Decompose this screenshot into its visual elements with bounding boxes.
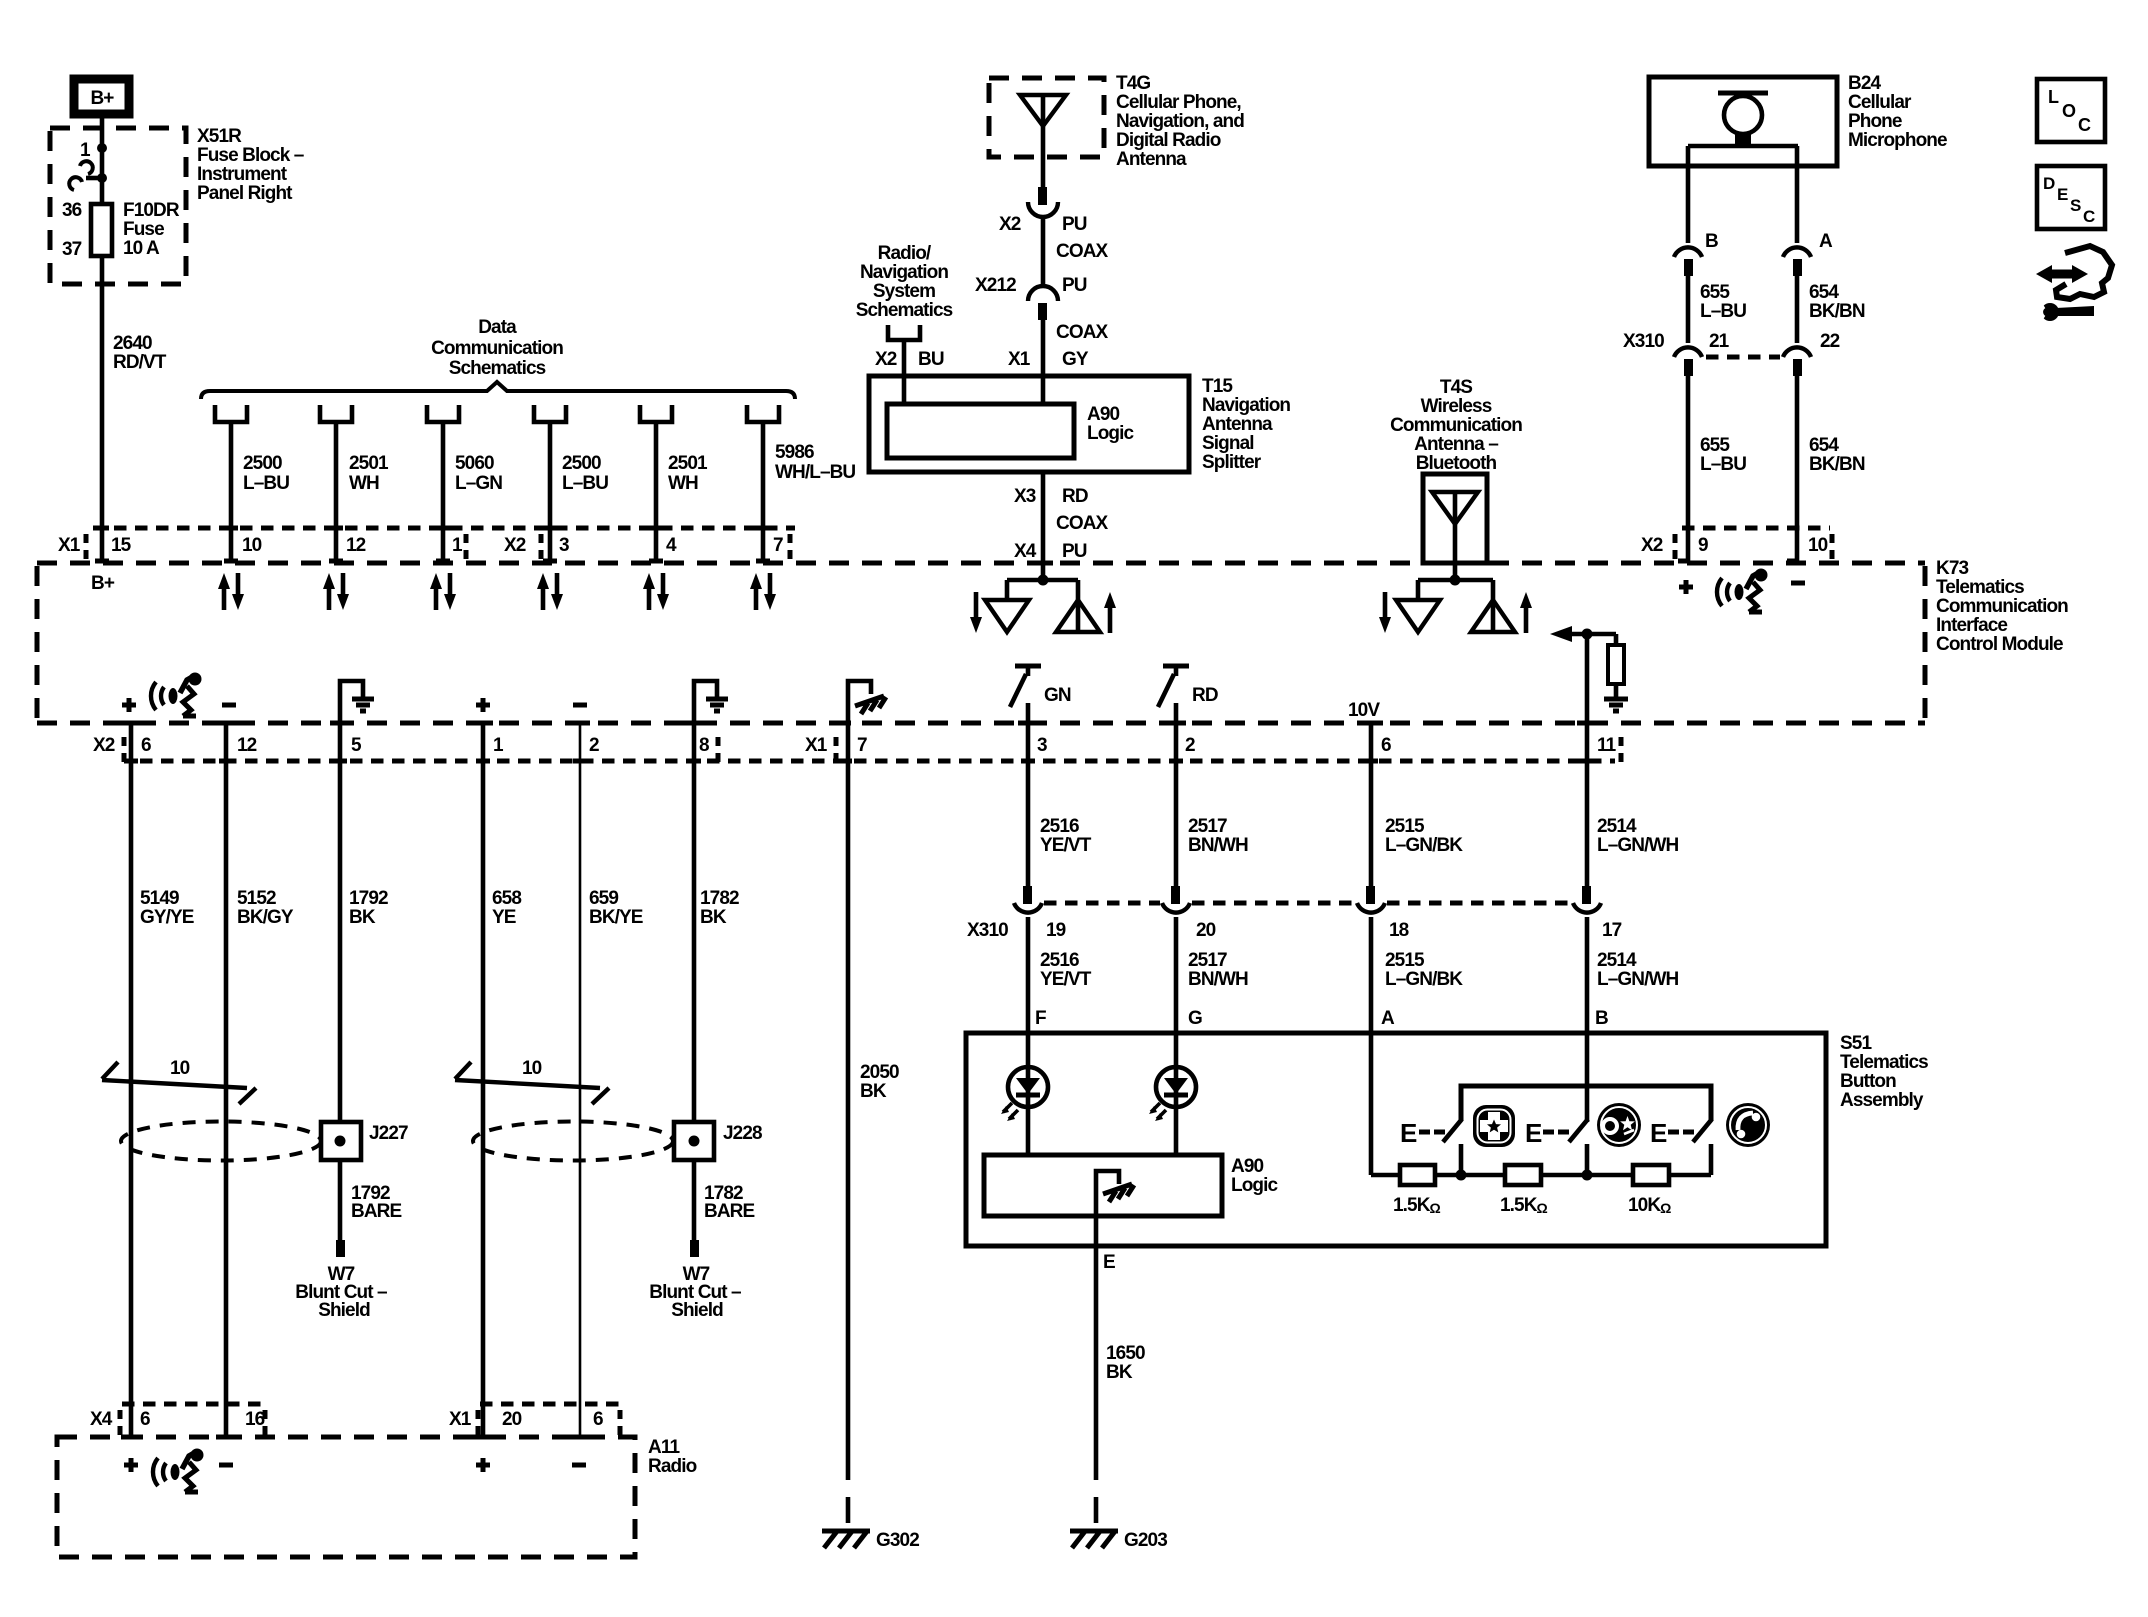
svg-text:GN: GN: [1044, 685, 1071, 706]
svg-text:Instrument: Instrument: [197, 164, 288, 185]
svg-text:Navigation: Navigation: [1202, 395, 1290, 416]
speaker icon (K73 left): [151, 673, 202, 717]
svg-text:22: 22: [1820, 331, 1840, 352]
microphone symbol: [1688, 93, 1798, 146]
data arrows pair 4: [537, 573, 563, 610]
radio A11 dashed box: [57, 1437, 635, 1557]
button common bus box: [1461, 1086, 1711, 1121]
wire 2517 BN/WH lower: [1174, 917, 1179, 1067]
svg-text:X1: X1: [805, 735, 828, 756]
svg-text:D: D: [2043, 174, 2055, 193]
svg-text:K73: K73: [1936, 558, 1968, 579]
svg-text:11: 11: [1597, 735, 1617, 756]
svg-text:12: 12: [346, 535, 366, 556]
svg-text:B+: B+: [91, 573, 115, 594]
connector pin A: [1783, 247, 1811, 257]
connector X310 pin 17: [1582, 886, 1591, 904]
svg-text:Button: Button: [1840, 1071, 1896, 1092]
svg-text:5986: 5986: [775, 442, 814, 463]
svg-text:RD: RD: [1192, 685, 1218, 706]
svg-text:Communication: Communication: [1936, 596, 2068, 617]
connector X310 pin 19: [1023, 886, 1032, 904]
down arrow: [1383, 592, 1388, 620]
wire 5149 GY/YE: [129, 723, 134, 1437]
OnStar button icon: [1597, 1103, 1641, 1147]
data link connector 1 (2500 L-BU): [215, 405, 289, 563]
transmit antenna symbol (down): [1396, 600, 1440, 632]
service/direction icon: [2036, 246, 2112, 321]
svg-text:Assembly: Assembly: [1840, 1090, 1924, 1111]
svg-text:12: 12: [237, 735, 257, 756]
wire 2517 to pin 2: [1174, 703, 1179, 886]
svg-text:Bluetooth: Bluetooth: [1416, 453, 1497, 474]
svg-text:BK: BK: [700, 907, 727, 928]
blunt cut W7 (left): [336, 1240, 345, 1257]
wire 2514 L-GN/WH lower: [1585, 917, 1590, 1122]
svg-text:X51R: X51R: [197, 126, 242, 147]
svg-text:7: 7: [857, 735, 867, 756]
data arrows pair 1: [218, 573, 244, 610]
svg-text:16: 16: [245, 1409, 265, 1430]
svg-text:BARE: BARE: [704, 1201, 754, 1222]
svg-text:WH/L–BU: WH/L–BU: [775, 462, 855, 483]
svg-text:T4S: T4S: [1440, 377, 1472, 398]
LED indicator 2: [1149, 1067, 1196, 1121]
DESC legend box: [2037, 166, 2105, 229]
svg-text:654: 654: [1809, 435, 1839, 456]
fuse block X51R dashed box: [50, 128, 186, 284]
svg-text:1782: 1782: [700, 888, 739, 909]
svg-text:36: 36: [62, 200, 82, 221]
svg-text:2516: 2516: [1040, 816, 1079, 837]
svg-text:Radio/: Radio/: [878, 243, 932, 264]
receive antenna symbol (up): [1056, 600, 1100, 632]
svg-text:Navigation, and: Navigation, and: [1116, 111, 1244, 132]
svg-text:L–GN/BK: L–GN/BK: [1385, 969, 1463, 990]
svg-text:L–GN: L–GN: [455, 473, 502, 494]
svg-text:X2: X2: [875, 349, 897, 370]
LED indicator 1: [1001, 1067, 1048, 1121]
svg-text:Wireless: Wireless: [1421, 396, 1492, 417]
svg-text:WH: WH: [668, 473, 698, 494]
T4S antenna symbol: [1453, 492, 1458, 580]
svg-text:T4G: T4G: [1116, 73, 1150, 94]
svg-text:BARE: BARE: [351, 1201, 401, 1222]
svg-text:15: 15: [111, 535, 132, 556]
svg-text:10: 10: [170, 1058, 190, 1079]
svg-text:X2: X2: [999, 214, 1021, 235]
svg-text:19: 19: [1046, 920, 1066, 941]
svg-text:YE/VT: YE/VT: [1040, 835, 1092, 856]
X310 dotted links: [1044, 901, 1160, 906]
svg-text:2517: 2517: [1188, 816, 1227, 837]
svg-text:X1: X1: [58, 535, 81, 556]
svg-text:6: 6: [141, 735, 151, 756]
K73 speaker output polarity: [122, 698, 236, 712]
svg-text:C: C: [2083, 207, 2095, 226]
wire 5152 BK/GY: [224, 723, 229, 1437]
svg-text:1650: 1650: [1106, 1343, 1145, 1364]
svg-text:GY/YE: GY/YE: [140, 907, 194, 928]
svg-text:A: A: [1381, 1008, 1395, 1029]
svg-text:BK/BN: BK/BN: [1809, 454, 1865, 475]
K73 lower connector dotted row: [140, 759, 1615, 764]
wire 2050 BK: [846, 723, 851, 1454]
data arrows pair 6: [750, 573, 776, 610]
data link connector 2 (2501 WH): [320, 405, 389, 563]
svg-text:Digital Radio: Digital Radio: [1116, 130, 1221, 151]
wire X3 RD coax: [1041, 472, 1046, 580]
svg-text:2: 2: [1185, 735, 1195, 756]
antenna T4S box: [1423, 474, 1487, 563]
svg-text:E: E: [1650, 1118, 1667, 1148]
internal pull resistor: [1614, 634, 1619, 645]
ground symbol at pin 5: [340, 681, 363, 723]
svg-text:A90: A90: [1231, 1156, 1263, 1177]
svg-text:655: 655: [1700, 282, 1730, 303]
svg-text:Communication: Communication: [1390, 415, 1522, 436]
svg-text:10 A: 10 A: [123, 238, 160, 259]
svg-text:21: 21: [1709, 331, 1730, 352]
svg-text:4: 4: [666, 535, 677, 556]
splice J227: [321, 1122, 361, 1160]
svg-text:X1: X1: [449, 1409, 472, 1430]
svg-text:System: System: [873, 281, 935, 302]
svg-text:20: 20: [502, 1409, 522, 1430]
svg-text:G: G: [1188, 1008, 1202, 1029]
svg-text:2517: 2517: [1188, 950, 1227, 971]
svg-text:RD/VT: RD/VT: [113, 352, 167, 373]
svg-text:Shield: Shield: [671, 1300, 723, 1321]
svg-text:C: C: [2078, 115, 2091, 135]
speaker icon (A11): [153, 1449, 204, 1493]
svg-text:X3: X3: [1014, 486, 1036, 507]
svg-text:5149: 5149: [140, 888, 179, 909]
wire 1792 BK (shield drain): [338, 723, 343, 1122]
svg-text:5152: 5152: [237, 888, 276, 909]
switch RD: [1163, 664, 1189, 669]
svg-text:RD: RD: [1062, 486, 1088, 507]
wire 658 YE: [481, 723, 486, 1437]
svg-text:WH: WH: [349, 473, 379, 494]
microphone B24 box: [1649, 77, 1837, 166]
receive antenna symbol (up): [1471, 600, 1515, 632]
svg-text:6: 6: [140, 1409, 150, 1430]
data link connector 5 (2501 WH): [640, 405, 708, 563]
svg-text:BU: BU: [918, 349, 944, 370]
svg-text:X2: X2: [93, 735, 115, 756]
svg-text:T15: T15: [1202, 376, 1233, 397]
svg-text:2515: 2515: [1385, 950, 1425, 971]
down arrow: [974, 592, 979, 620]
svg-text:10: 10: [242, 535, 262, 556]
svg-text:8: 8: [699, 735, 709, 756]
wire 655 L-BU lower: [1686, 376, 1691, 563]
connector X4 pins 6 / 16: [90, 1404, 265, 1437]
svg-text:E: E: [2057, 185, 2068, 204]
twisted pair marker 2: [455, 1058, 609, 1104]
svg-text:L: L: [2048, 87, 2059, 107]
svg-text:Shield: Shield: [318, 1300, 370, 1321]
data arrows pair 5: [643, 573, 669, 610]
connector pin B: [1674, 247, 1702, 257]
node bus junction 1: [1456, 1170, 1467, 1181]
svg-text:YE/VT: YE/VT: [1040, 969, 1092, 990]
fuse F10DR: [91, 204, 112, 256]
transmit antenna symbol (down): [985, 600, 1029, 632]
wire 1782 BARE: [692, 1160, 697, 1240]
svg-text:659: 659: [589, 888, 618, 909]
wire from B+ into fuse block: [100, 114, 105, 205]
up arrow: [1108, 605, 1113, 633]
resistor ladder bus: [1371, 1173, 1711, 1178]
wire 2514 to pin 11: [1585, 634, 1590, 886]
node pin 1: [97, 143, 107, 153]
svg-text:E: E: [1103, 1252, 1115, 1273]
svg-text:Fuse Block –: Fuse Block –: [197, 145, 304, 166]
svg-text:5: 5: [351, 735, 362, 756]
svg-text:10: 10: [522, 1058, 542, 1079]
ground symbol at pin 8: [694, 681, 717, 723]
connector X2 coax (pin + socket): [1038, 187, 1047, 205]
svg-text:B: B: [1595, 1008, 1608, 1029]
svg-text:Panel Right: Panel Right: [197, 183, 293, 204]
svg-text:BK: BK: [1106, 1362, 1133, 1383]
data arrows pair 3: [430, 573, 456, 610]
svg-text:L–BU: L–BU: [243, 473, 289, 494]
svg-text:2514: 2514: [1597, 950, 1637, 971]
svg-text:37: 37: [62, 239, 82, 260]
svg-text:Control Module: Control Module: [1936, 634, 2063, 655]
svg-text:18: 18: [1389, 920, 1409, 941]
svg-text:9: 9: [1698, 535, 1708, 556]
svg-text:Data: Data: [478, 317, 517, 338]
phone button icon: [1726, 1103, 1770, 1147]
svg-text:A: A: [1819, 231, 1833, 252]
svg-text:Radio: Radio: [648, 1456, 697, 1477]
svg-text:Cellular: Cellular: [1848, 92, 1912, 113]
svg-text:J227: J227: [369, 1123, 408, 1144]
up arrow: [1524, 605, 1529, 633]
svg-text:Logic: Logic: [1087, 423, 1134, 444]
svg-text:10: 10: [1808, 535, 1828, 556]
svg-text:X310: X310: [967, 920, 1008, 941]
telematics button assembly S51 box: [966, 1033, 1826, 1246]
svg-text:2050: 2050: [860, 1062, 899, 1083]
svg-text:Microphone: Microphone: [1848, 130, 1947, 151]
svg-text:3: 3: [559, 535, 569, 556]
wire 654 BK/BN upper: [1795, 276, 1800, 343]
svg-text:GY: GY: [1062, 349, 1089, 370]
svg-text:PU: PU: [1062, 275, 1087, 296]
svg-text:BN/WH: BN/WH: [1188, 969, 1248, 990]
T4G antenna symbol: [1041, 95, 1046, 187]
connector to radio/nav schematics: [888, 325, 920, 404]
node T4G antenna split: [1038, 575, 1049, 586]
data link connector 3 (5060 L-GN): [427, 405, 502, 563]
ground (internal): [1604, 699, 1628, 711]
svg-text:PU: PU: [1062, 541, 1087, 562]
svg-text:X2: X2: [1641, 535, 1663, 556]
resistor 10K: [1633, 1165, 1669, 1185]
svg-text:Signal: Signal: [1202, 433, 1254, 454]
connector X310 pin 18: [1366, 886, 1375, 904]
svg-text:BN/WH: BN/WH: [1188, 835, 1248, 856]
svg-text:COAX: COAX: [1056, 513, 1109, 534]
svg-text:2500: 2500: [243, 453, 282, 474]
svg-text:BK: BK: [349, 907, 376, 928]
svg-text:PU: PU: [1062, 214, 1087, 235]
svg-text:3: 3: [1037, 735, 1047, 756]
blunt cut W7 (right): [690, 1240, 699, 1257]
splitter T15 box: [869, 376, 1189, 472]
svg-text:Antenna: Antenna: [1202, 414, 1273, 435]
svg-text:BK/BN: BK/BN: [1809, 301, 1865, 322]
svg-text:658: 658: [492, 888, 521, 909]
svg-text:X2: X2: [504, 535, 526, 556]
svg-text:654: 654: [1809, 282, 1839, 303]
svg-text:20: 20: [1196, 920, 1216, 941]
svg-text:Antenna –: Antenna –: [1414, 434, 1498, 455]
splice J228: [674, 1122, 714, 1160]
svg-text:Antenna: Antenna: [1116, 149, 1187, 170]
ground G203: [1070, 1530, 1167, 1551]
wire 2515 L-GN/BK lower: [1369, 917, 1374, 1175]
svg-text:X310: X310: [1623, 331, 1664, 352]
svg-text:L–GN/WH: L–GN/WH: [1597, 835, 1678, 856]
svg-text:L–BU: L–BU: [1700, 454, 1746, 475]
svg-text:BK: BK: [860, 1081, 887, 1102]
svg-text:E: E: [1400, 1118, 1417, 1148]
svg-text:G302: G302: [876, 1530, 919, 1551]
connector X2 pins 9 / 10: [1682, 526, 1830, 531]
svg-text:10V: 10V: [1348, 700, 1380, 721]
svg-text:A11: A11: [648, 1437, 680, 1458]
svg-text:BK/YE: BK/YE: [589, 907, 643, 928]
LOC legend box: [2037, 79, 2105, 142]
wire 2516 YE/VT lower: [1026, 917, 1031, 1067]
svg-text:F10DR: F10DR: [123, 200, 180, 221]
connector row X1/X2 dotted line: [93, 526, 795, 531]
svg-text:Telematics: Telematics: [1936, 577, 2024, 598]
svg-text:Interface: Interface: [1936, 615, 2007, 636]
svg-text:X4: X4: [1014, 541, 1037, 562]
svg-text:X4: X4: [90, 1409, 113, 1430]
radio input polarity right: [476, 1458, 586, 1472]
logic block A90 (S51): [984, 1155, 1222, 1216]
K73 Telematics Communication Interface Control Module dashed box: [37, 561, 1925, 566]
node T4S antenna split: [1450, 575, 1461, 586]
svg-text:2501: 2501: [668, 453, 708, 474]
svg-text:B: B: [1705, 231, 1718, 252]
LED wires into logic: [1028, 1067, 1176, 1155]
svg-text:L–GN/WH: L–GN/WH: [1597, 969, 1678, 990]
svg-text:7: 7: [773, 535, 783, 556]
radio input polarity: [476, 698, 587, 712]
svg-text:6: 6: [1381, 735, 1391, 756]
data link connector 4 (2500 L-BU): [534, 405, 608, 563]
svg-text:L–BU: L–BU: [1700, 301, 1746, 322]
wire 659 BK/YE: [579, 723, 582, 1437]
svg-text:B24: B24: [1848, 73, 1881, 94]
ground G302: [822, 1530, 919, 1551]
svg-text:X212: X212: [975, 275, 1016, 296]
svg-text:Logic: Logic: [1231, 1175, 1278, 1196]
svg-text:E: E: [1525, 1118, 1542, 1148]
resistor 1.5K (left): [1400, 1165, 1435, 1185]
svg-text:L–BU: L–BU: [562, 473, 608, 494]
radio speaker polarity left: [124, 1458, 233, 1472]
shield ellipse 2: [473, 1122, 673, 1161]
terminal clip symbol: [86, 176, 102, 181]
wire 1782 BK (shield drain): [692, 723, 697, 1122]
svg-text:YE: YE: [492, 907, 516, 928]
wire 1792 BARE: [338, 1160, 343, 1240]
svg-text:S: S: [2070, 196, 2081, 215]
node bus junction 2: [1582, 1170, 1593, 1181]
svg-text:5060: 5060: [455, 453, 494, 474]
svg-text:J228: J228: [723, 1123, 762, 1144]
data link connector 6 (5986 WH/L-BU): [747, 405, 855, 563]
svg-text:2501: 2501: [349, 453, 389, 474]
svg-text:2640: 2640: [113, 333, 152, 354]
svg-text:S51: S51: [1840, 1033, 1872, 1054]
internal chassis ground and pin E wire: [1096, 1171, 1119, 1454]
connector X310 pin 20: [1171, 886, 1180, 904]
svg-text:Communication: Communication: [431, 338, 563, 359]
svg-text:1792: 1792: [349, 888, 388, 909]
svg-text:COAX: COAX: [1056, 322, 1109, 343]
svg-text:Telematics: Telematics: [1840, 1052, 1928, 1073]
blue cross button icon: [1473, 1105, 1515, 1147]
svg-text:2516: 2516: [1040, 950, 1079, 971]
svg-text:COAX: COAX: [1056, 241, 1109, 262]
svg-text:1: 1: [493, 735, 504, 756]
svg-text:Cellular Phone,: Cellular Phone,: [1116, 92, 1241, 113]
svg-text:17: 17: [1602, 920, 1622, 941]
twisted pair marker 1: [102, 1058, 256, 1104]
wire 654 BK/BN lower: [1795, 376, 1800, 563]
svg-text:L–GN/BK: L–GN/BK: [1385, 835, 1463, 856]
svg-text:Splitter: Splitter: [1202, 452, 1262, 473]
svg-text:Navigation: Navigation: [860, 262, 948, 283]
svg-text:A90: A90: [1087, 404, 1119, 425]
svg-text:BK/GY: BK/GY: [237, 907, 294, 928]
svg-text:X1: X1: [1008, 349, 1031, 370]
svg-text:Fuse: Fuse: [123, 219, 164, 240]
svg-text:Schematics: Schematics: [449, 358, 546, 379]
antenna T4G dashed box: [989, 78, 1104, 157]
svg-text:B+: B+: [90, 88, 114, 109]
svg-text:Schematics: Schematics: [856, 300, 953, 321]
svg-text:F: F: [1035, 1008, 1046, 1029]
svg-text:O: O: [2062, 101, 2076, 121]
svg-text:1: 1: [80, 140, 91, 161]
svg-text:2500: 2500: [562, 453, 601, 474]
speaker/mic icon: [1717, 569, 1768, 613]
battery feed B+ symbol: [74, 79, 129, 114]
switch GN: [1015, 664, 1041, 669]
wire 2516 to pin 3: [1026, 703, 1031, 886]
direction arrow into module: [1572, 632, 1616, 637]
microphone input polarity: [1679, 580, 1805, 594]
node arrow/resistor junction: [1582, 629, 1593, 640]
svg-text:2: 2: [589, 735, 599, 756]
svg-text:1: 1: [452, 535, 463, 556]
resistor 1.5K (middle): [1505, 1165, 1541, 1185]
wire 655 L-BU upper: [1686, 276, 1691, 343]
svg-text:2515: 2515: [1385, 816, 1425, 837]
